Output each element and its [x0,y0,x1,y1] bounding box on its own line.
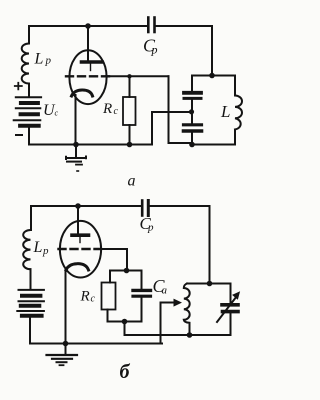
svg-text:p: p [147,222,154,234]
svg-text:L: L [220,102,230,121]
svg-text:R: R [102,101,112,117]
svg-text:L: L [33,239,43,256]
svg-text:p: p [42,245,49,257]
svg-text:a: a [162,285,168,297]
svg-text:c: c [91,294,96,305]
svg-text:L: L [34,51,44,68]
svg-text:p: p [151,43,158,57]
svg-text:б: б [120,361,131,383]
svg-text:c: c [114,106,119,117]
svg-text:a: a [128,173,136,190]
svg-text:c: c [55,109,59,118]
svg-text:p: p [45,55,52,67]
svg-text:R: R [80,289,90,305]
